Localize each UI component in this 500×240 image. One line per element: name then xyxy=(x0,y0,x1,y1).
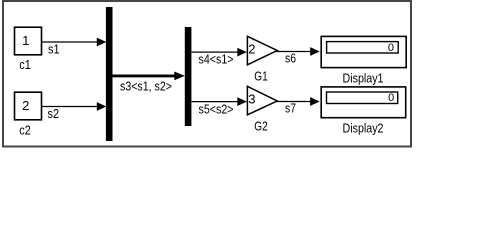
mux xyxy=(106,7,113,141)
wire s4 xyxy=(191,48,246,57)
svg-text:2: 2 xyxy=(248,42,255,57)
wire s1 xyxy=(42,38,106,47)
svg-text:Display1: Display1 xyxy=(343,71,384,86)
svg-text:1: 1 xyxy=(22,33,29,48)
svg-text:Display2: Display2 xyxy=(343,121,384,136)
wire s3 xyxy=(113,72,185,81)
demux xyxy=(185,27,192,126)
wire s5 xyxy=(191,97,246,106)
gain G2 xyxy=(247,86,277,115)
svg-text:s7: s7 xyxy=(285,100,296,115)
display Display2 xyxy=(321,87,406,118)
svg-text:s2: s2 xyxy=(48,106,60,121)
svg-text:0: 0 xyxy=(388,92,394,104)
constant c1 xyxy=(15,27,42,55)
wire s6 xyxy=(277,47,320,56)
svg-text:s6: s6 xyxy=(285,50,296,65)
display Display1 xyxy=(321,36,406,67)
svg-text:c1: c1 xyxy=(19,57,31,72)
svg-text:0: 0 xyxy=(388,42,394,54)
svg-text:s5<s2>: s5<s2> xyxy=(199,102,234,117)
svg-text:c2: c2 xyxy=(19,123,31,138)
svg-text:2: 2 xyxy=(22,98,29,113)
gain G1 xyxy=(247,36,277,65)
svg-text:s4<s1>: s4<s1> xyxy=(199,52,234,67)
svg-text:3: 3 xyxy=(248,92,255,107)
svg-text:G1: G1 xyxy=(254,69,268,84)
wire s2 xyxy=(42,102,106,111)
svg-text:s3<s1, s2>: s3<s1, s2> xyxy=(120,79,172,94)
svg-text:s1: s1 xyxy=(48,42,60,57)
constant c2 xyxy=(15,92,42,120)
svg-text:G2: G2 xyxy=(254,119,268,134)
wire s7 xyxy=(277,97,320,106)
